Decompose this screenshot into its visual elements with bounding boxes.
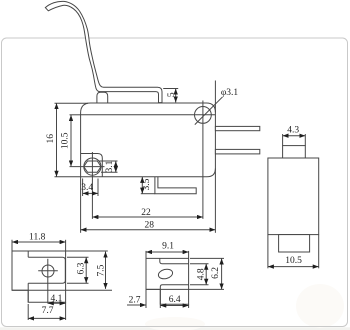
svg-text:3.5: 3.5 bbox=[142, 178, 152, 190]
svg-text:4.8: 4.8 bbox=[196, 268, 206, 280]
svg-text:4.1: 4.1 bbox=[50, 294, 62, 304]
svg-text:11.8: 11.8 bbox=[29, 232, 46, 242]
svg-text:3.4: 3.4 bbox=[81, 183, 93, 193]
svg-text:φ3.1: φ3.1 bbox=[221, 88, 239, 98]
svg-text:6.4: 6.4 bbox=[169, 295, 181, 305]
svg-text:3.1: 3.1 bbox=[105, 160, 115, 172]
svg-text:6.2: 6.2 bbox=[211, 267, 221, 279]
svg-text:10.5: 10.5 bbox=[60, 132, 70, 149]
svg-text:7.7: 7.7 bbox=[42, 306, 54, 316]
svg-text:28: 28 bbox=[145, 220, 155, 230]
svg-text:10.5: 10.5 bbox=[285, 256, 302, 266]
svg-text:22: 22 bbox=[141, 208, 151, 218]
svg-text:9.1: 9.1 bbox=[162, 241, 174, 251]
svg-text:5: 5 bbox=[167, 92, 177, 97]
svg-text:7.5: 7.5 bbox=[97, 264, 107, 276]
svg-text:2.7: 2.7 bbox=[129, 295, 141, 305]
svg-text:16: 16 bbox=[46, 134, 56, 144]
svg-text:6.3: 6.3 bbox=[77, 262, 87, 274]
svg-text:4.3: 4.3 bbox=[287, 125, 299, 135]
